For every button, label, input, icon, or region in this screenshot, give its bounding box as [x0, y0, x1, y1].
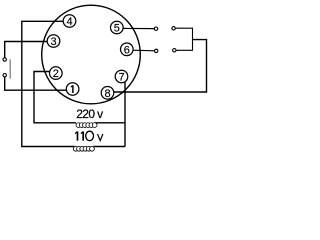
svg-text:7: 7 [118, 72, 124, 84]
svg-text:4: 4 [66, 16, 72, 28]
svg-text:2: 2 [53, 68, 59, 80]
svg-text:220 v: 220 v [76, 107, 103, 121]
svg-text:3: 3 [50, 36, 56, 48]
svg-text:6: 6 [124, 44, 130, 56]
svg-text:8: 8 [104, 88, 110, 100]
svg-text:5: 5 [114, 23, 120, 35]
